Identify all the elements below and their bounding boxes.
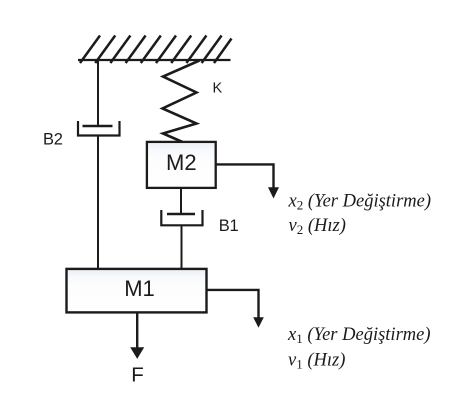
wire: B1 lower rod: [181, 225, 183, 269]
svg-text:M2: M2: [166, 150, 197, 175]
svg-text:M1: M1: [124, 276, 155, 301]
wire: M1 displacement arrow: [207, 290, 259, 318]
spring K: [163, 61, 200, 143]
wire: B2 upper rod: [97, 60, 99, 127]
svg-text:K: K: [213, 81, 223, 97]
svg-text:v1 (Hız): v1 (Hız): [288, 350, 345, 371]
damper B2 cylinder: [78, 121, 120, 136]
wire: M2 displacement arrow: [216, 164, 274, 188]
damper B1 cylinder: [161, 210, 202, 225]
wire: B2 lower rod: [97, 136, 99, 270]
wire: M2 to B1 rod: [180, 188, 182, 214]
ceiling fixed support hatching: [80, 36, 232, 64]
svg-text:x2 (Yer Değiştirme): x2 (Yer Değiştirme): [288, 192, 432, 213]
svg-text:x1 (Yer Değiştirme): x1 (Yer Değiştirme): [287, 325, 431, 346]
arrowhead x2: [268, 187, 279, 198]
mass M1 box: [67, 269, 207, 313]
svg-text:B1: B1: [219, 217, 239, 235]
svg-text:B2: B2: [43, 131, 63, 149]
arrowhead x1: [253, 317, 264, 328]
svg-text:F: F: [131, 363, 144, 386]
arrowhead F: [130, 347, 144, 359]
ceiling line: [78, 59, 231, 61]
damper B2 piston: [83, 125, 113, 127]
damper B1 piston: [167, 213, 195, 215]
svg-text:v2 (Hız): v2 (Hız): [289, 216, 346, 237]
mass M2 box: [147, 142, 216, 188]
wire: force F arrow shaft: [136, 313, 138, 349]
